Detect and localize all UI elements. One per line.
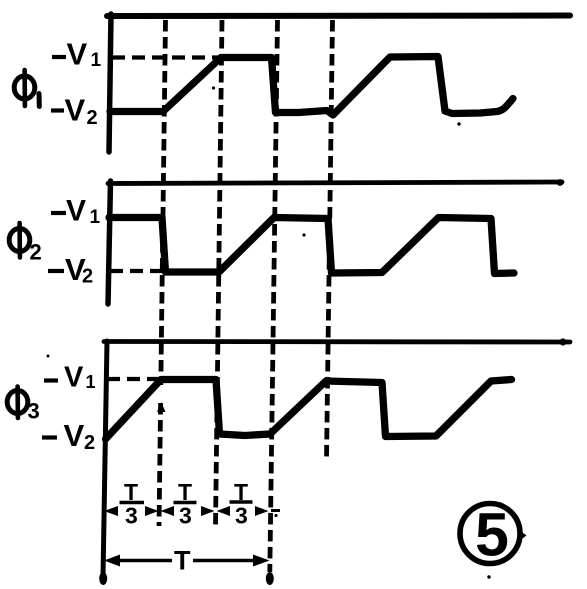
svg-text:3: 3 xyxy=(125,503,138,529)
phi3 waveform xyxy=(106,380,512,440)
T/3 dimension arrows segment 1 xyxy=(104,506,159,516)
label -V2 (panel 1) xyxy=(51,93,98,130)
panel 2 left axis xyxy=(108,181,111,304)
T/3 dimension arrows segment 2 xyxy=(161,506,215,516)
svg-text:T: T xyxy=(124,479,138,505)
T/3 dimension arrows segment 3 xyxy=(217,506,281,516)
panel 3 left axis extended to bottom xyxy=(103,341,107,577)
svg-text:2: 2 xyxy=(84,432,95,454)
svg-text:T: T xyxy=(174,546,191,576)
svg-text:3: 3 xyxy=(235,503,248,529)
svg-text:2: 2 xyxy=(82,266,93,288)
svg-text:V: V xyxy=(65,93,86,128)
svg-text:T: T xyxy=(178,479,192,505)
dashed vertical gridline t3 xyxy=(270,20,278,572)
label -V1 (panel 1) xyxy=(52,37,102,72)
svg-text:1: 1 xyxy=(91,50,102,71)
label phi3 symbol xyxy=(7,387,40,424)
svg-text:V: V xyxy=(64,418,85,453)
svg-text:T: T xyxy=(234,479,248,505)
svg-text:3: 3 xyxy=(179,503,192,529)
label -V1 (panel 3) xyxy=(44,362,96,394)
svg-text:V: V xyxy=(64,362,84,394)
dashed vertical gridline t2 xyxy=(216,20,223,526)
dashed vertical gridline t1 (upper) xyxy=(161,20,166,385)
svg-text:1: 1 xyxy=(86,372,96,392)
svg-text:1: 1 xyxy=(90,207,101,228)
panel 1 dashed -V1 level xyxy=(112,55,221,59)
panel 2 top border xyxy=(108,182,562,184)
T/3 fraction label 2 xyxy=(174,479,197,529)
svg-text:V: V xyxy=(67,37,88,72)
T/3 fraction label 3 xyxy=(230,479,253,529)
dashed vertical gridline t4 xyxy=(327,20,333,459)
svg-text:3: 3 xyxy=(28,399,40,424)
label phi1 symbol xyxy=(14,70,39,107)
label -V2 (panel 2) xyxy=(48,252,93,288)
svg-text:V: V xyxy=(66,195,86,228)
bottom blob right xyxy=(266,572,274,585)
svg-text:2: 2 xyxy=(30,240,42,265)
label phi2 symbol xyxy=(9,223,42,265)
panel 2 dashed -V2 level xyxy=(110,269,164,273)
label -V2 (panel 3) xyxy=(42,418,95,454)
panel 1 left axis xyxy=(109,14,111,152)
phi1 waveform xyxy=(110,57,513,116)
panel 1 top border xyxy=(107,13,570,20)
T/3 fraction label 1 xyxy=(120,479,145,529)
label -V1 (panel 2) xyxy=(51,195,101,229)
small up arrow on gridline t1 xyxy=(157,402,166,412)
bottom blob left xyxy=(99,572,107,585)
svg-text:5: 5 xyxy=(475,501,509,569)
svg-text:2: 2 xyxy=(87,107,98,129)
dashed vertical gridline t1 (lower) xyxy=(159,403,161,526)
phi2 waveform xyxy=(109,218,514,274)
panel 3 top border xyxy=(104,339,570,344)
T dimension line xyxy=(104,546,270,576)
scan speckles xyxy=(47,86,491,578)
panel 3 dashed -V1 level xyxy=(107,377,160,381)
figure number circle 5 xyxy=(460,501,527,569)
